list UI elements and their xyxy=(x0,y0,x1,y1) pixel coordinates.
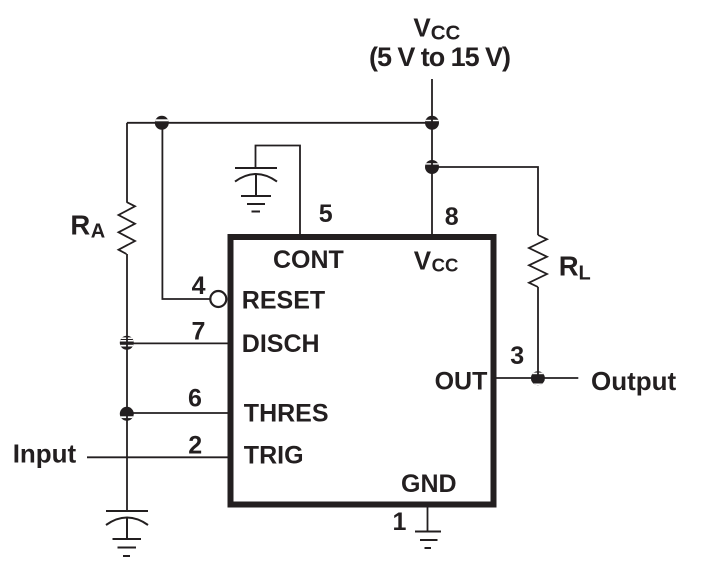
svg-text:GND: GND xyxy=(401,470,457,498)
svg-text:6: 6 xyxy=(188,384,202,412)
svg-text:Input: Input xyxy=(13,439,77,469)
svg-text:1: 1 xyxy=(393,508,407,536)
svg-text:TRIG: TRIG xyxy=(244,441,304,469)
svg-text:OUT: OUT xyxy=(435,368,488,396)
svg-text:THRES: THRES xyxy=(244,399,329,427)
svg-text:V: V xyxy=(414,246,432,276)
svg-text:R: R xyxy=(559,250,579,281)
svg-text:2: 2 xyxy=(188,432,202,460)
svg-text:R: R xyxy=(70,209,90,240)
svg-text:Output: Output xyxy=(591,366,677,396)
svg-text:L: L xyxy=(579,263,591,285)
svg-text:RESET: RESET xyxy=(242,286,325,314)
svg-text:8: 8 xyxy=(445,203,459,231)
svg-text:7: 7 xyxy=(192,317,206,345)
svg-text:4: 4 xyxy=(192,272,206,300)
svg-text:3: 3 xyxy=(510,342,524,370)
svg-text:CC: CC xyxy=(432,254,459,275)
svg-text:A: A xyxy=(91,221,105,243)
svg-text:V: V xyxy=(413,13,431,43)
svg-text:CONT: CONT xyxy=(273,246,344,274)
svg-text:(5 V to 15 V): (5 V to 15 V) xyxy=(369,42,510,72)
svg-text:5: 5 xyxy=(319,200,333,228)
svg-text:DISCH: DISCH xyxy=(242,330,320,358)
